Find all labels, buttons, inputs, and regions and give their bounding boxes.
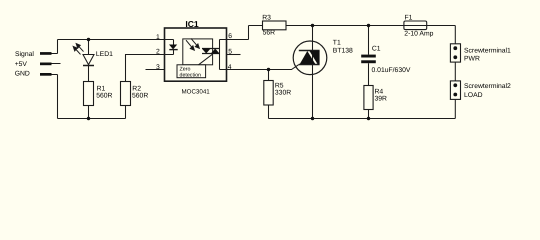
svg-text:GND: GND — [15, 70, 30, 77]
svg-text:BT138: BT138 — [333, 48, 353, 55]
svg-text:3: 3 — [156, 64, 160, 71]
svg-text:LED1: LED1 — [96, 51, 113, 58]
svg-text:C1: C1 — [372, 45, 381, 52]
svg-text:MOC3041: MOC3041 — [182, 88, 211, 95]
svg-text:LOAD: LOAD — [464, 92, 483, 99]
svg-text:39R: 39R — [375, 96, 388, 103]
svg-text:PWR: PWR — [464, 55, 480, 62]
svg-text:56R: 56R — [263, 30, 276, 37]
svg-text:IC1: IC1 — [185, 19, 199, 29]
svg-text:4: 4 — [228, 64, 232, 71]
svg-text:1: 1 — [156, 34, 160, 41]
svg-text:R3: R3 — [262, 14, 271, 21]
svg-text:Screwterminal1: Screwterminal1 — [464, 48, 511, 55]
svg-text:560R: 560R — [132, 92, 148, 99]
svg-text:2: 2 — [156, 49, 160, 56]
svg-text:detection: detection — [180, 73, 202, 79]
svg-text:Signal: Signal — [15, 51, 34, 58]
svg-text:560R: 560R — [96, 92, 112, 99]
svg-text:2-10 Amp: 2-10 Amp — [404, 31, 433, 38]
svg-text:0.01uF/630V: 0.01uF/630V — [372, 67, 411, 74]
svg-text:Screwterminal2: Screwterminal2 — [464, 83, 511, 90]
svg-text:6: 6 — [228, 33, 232, 40]
svg-text:5: 5 — [228, 48, 232, 55]
svg-text:+5V: +5V — [15, 61, 28, 68]
svg-text:T1: T1 — [333, 39, 341, 46]
svg-text:F1: F1 — [405, 14, 413, 21]
svg-text:330R: 330R — [275, 89, 291, 96]
